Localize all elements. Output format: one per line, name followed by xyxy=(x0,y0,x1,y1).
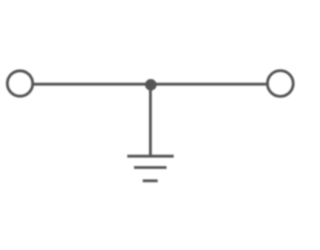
junction node xyxy=(145,79,157,91)
ground bar 3 xyxy=(143,179,158,182)
terminal circle right xyxy=(267,71,293,97)
ground bar 1 xyxy=(127,155,173,158)
wire vertical to ground xyxy=(149,84,152,156)
wire horizontal xyxy=(34,83,267,86)
ground bar 2 xyxy=(134,166,167,169)
terminal circle left xyxy=(7,71,32,96)
